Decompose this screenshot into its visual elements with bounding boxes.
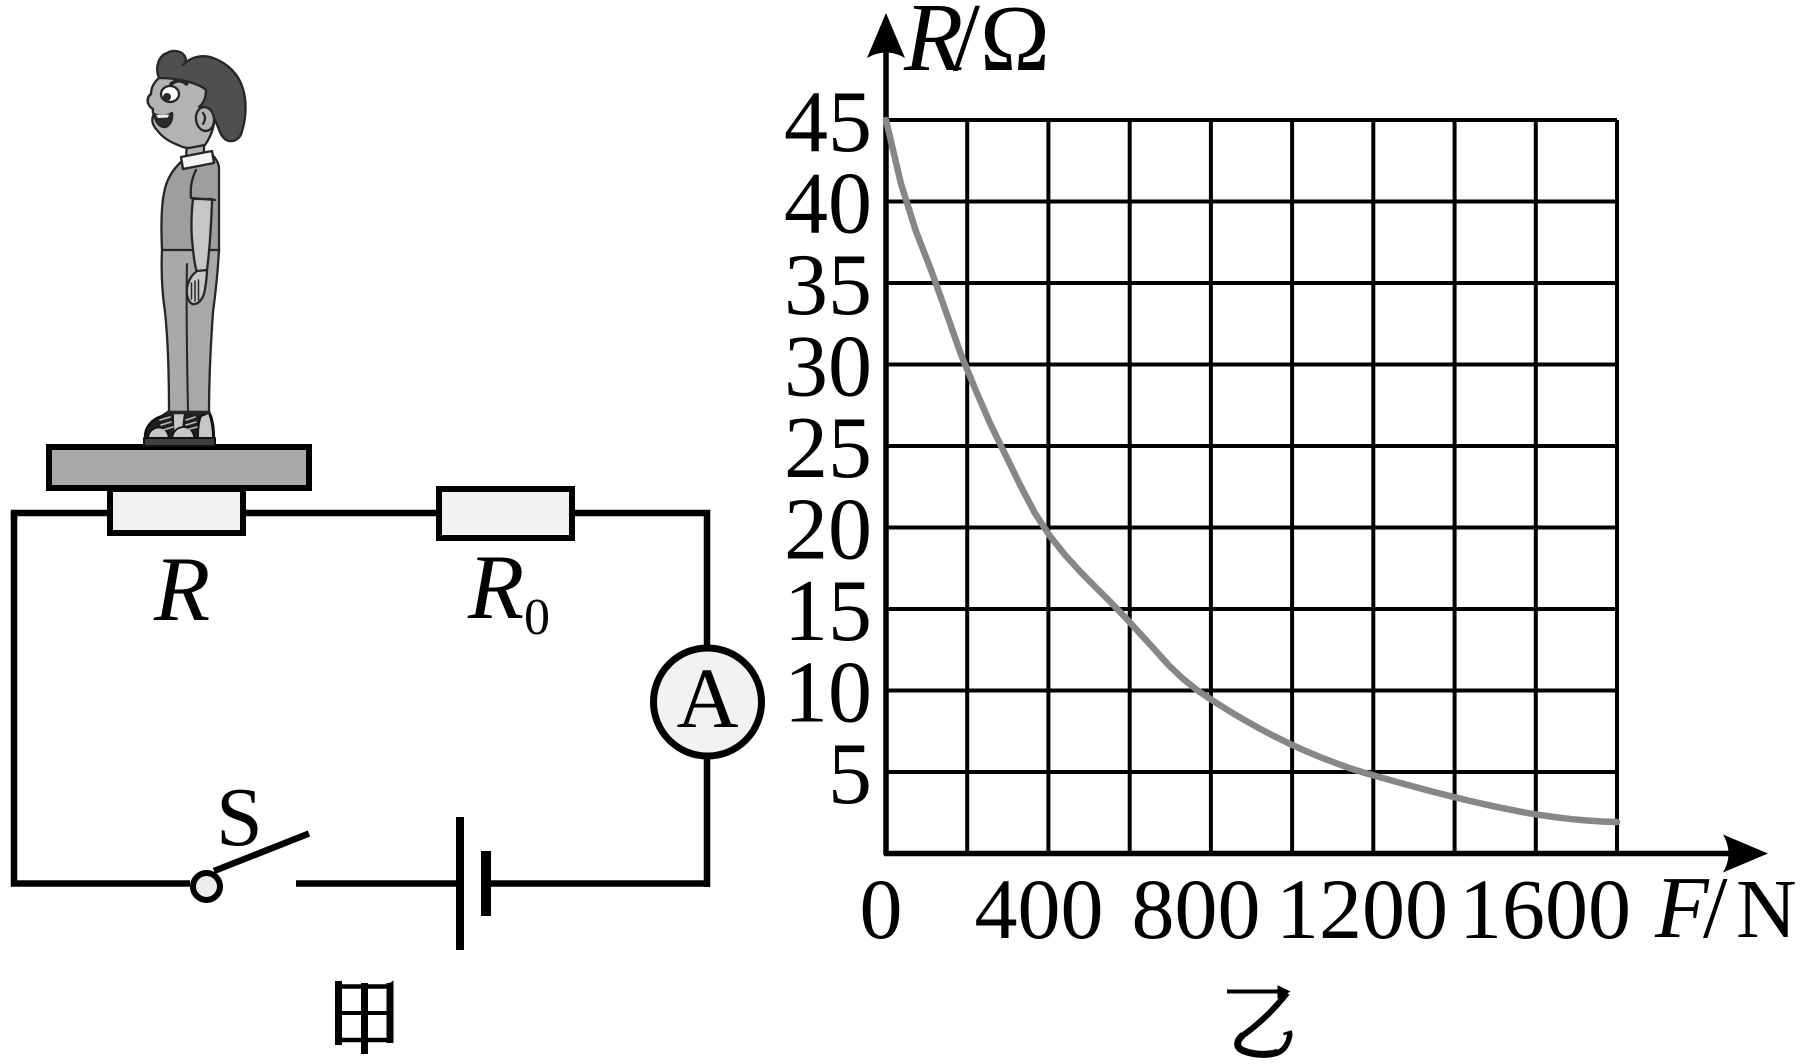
svg-text:0: 0	[860, 861, 903, 957]
svg-text:1600: 1600	[1459, 861, 1631, 957]
svg-text:800: 800	[1132, 861, 1261, 957]
svg-text:R: R	[153, 538, 210, 640]
svg-text:F: F	[1654, 860, 1710, 957]
svg-text:400: 400	[975, 861, 1104, 957]
svg-text:Ω: Ω	[980, 0, 1050, 91]
svg-text:0: 0	[524, 589, 550, 646]
svg-text:R: R	[467, 536, 524, 638]
svg-text:1200: 1200	[1276, 861, 1448, 957]
svg-text:5: 5	[828, 726, 872, 823]
svg-text:S: S	[216, 771, 263, 864]
svg-text:N: N	[1736, 863, 1797, 956]
svg-text:A: A	[676, 650, 738, 746]
svg-text:/: /	[953, 0, 980, 91]
svg-text:/: /	[1703, 860, 1728, 957]
